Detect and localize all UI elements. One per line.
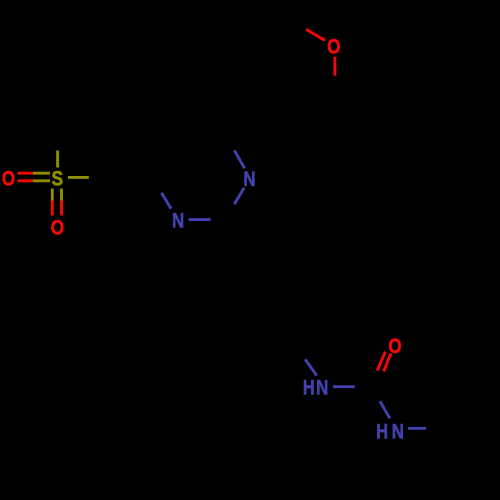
- svg-text:O: O: [327, 35, 340, 59]
- sulfonyl S=O down double bond, sulfur halves: [52, 189, 61, 201]
- svg-text:N: N: [243, 167, 255, 191]
- svg-text:S: S: [52, 166, 64, 190]
- S-CH3 bond: [56, 151, 59, 168]
- pyrimidine N1 to C6 bond: [161, 193, 171, 209]
- svg-text:O: O: [388, 334, 401, 358]
- urea C=O double bond: [377, 352, 391, 372]
- pyrimidine N1 to C2 bond: [189, 218, 211, 221]
- methoxy O-aryl bond: [333, 57, 336, 76]
- svg-text:N: N: [392, 419, 404, 443]
- svg-text:N: N: [316, 376, 328, 400]
- svg-text:O: O: [51, 216, 64, 240]
- svg-text:H: H: [303, 376, 315, 400]
- sulfonyl S=O left double bond, red halves: [18, 173, 33, 181]
- methoxy O-CH3 bond: [306, 29, 325, 40]
- S-CH2 bond: [68, 176, 89, 179]
- sulfonyl S=O down double bond, red halves: [52, 201, 61, 216]
- sulfonyl S=O left double bond, sulfur halves: [33, 173, 50, 181]
- pyrimidine N3 to C4 bond: [234, 150, 244, 168]
- svg-text:H: H: [376, 419, 388, 443]
- pyrimidine N3 to C2 bond: [234, 188, 244, 205]
- urea C-NH2 bond: [380, 401, 390, 418]
- svg-text:N: N: [172, 208, 184, 232]
- aniline C-NH bond: [305, 359, 317, 375]
- urea NH-C bond: [333, 385, 355, 388]
- svg-text:O: O: [2, 166, 15, 190]
- urea NH-ethyl bond: [408, 427, 426, 430]
